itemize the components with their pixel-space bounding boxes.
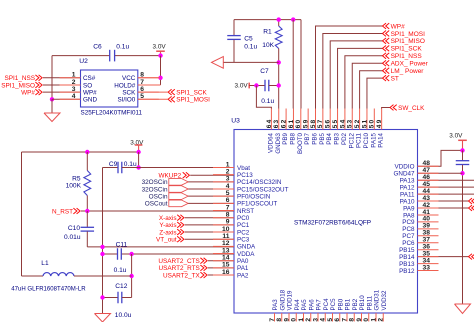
wire WP# from U3 pin58 xyxy=(316,26,383,109)
net chevron pin43 (clipped) xyxy=(469,198,473,204)
port OSCin (pin5) xyxy=(149,193,189,201)
wire U3 pin47 GND47 xyxy=(418,172,463,174)
svg-text:PC2: PC2 xyxy=(237,229,250,236)
svg-text:PB1: PB1 xyxy=(345,298,352,310)
svg-text:45: 45 xyxy=(423,181,431,188)
net label USART2_TX xyxy=(163,272,207,279)
svg-text:5: 5 xyxy=(140,93,144,100)
svg-text:9: 9 xyxy=(226,219,230,226)
U2 left pin names xyxy=(83,75,97,104)
svg-text:3.0V: 3.0V xyxy=(449,133,463,140)
svg-text:56: 56 xyxy=(325,119,332,129)
svg-text:BOOT0: BOOT0 xyxy=(297,132,304,154)
wire 3.0V rail (left) xyxy=(22,151,139,153)
junction 3.0V rail / port xyxy=(136,150,140,154)
svg-text:49: 49 xyxy=(376,119,383,129)
svg-text:15: 15 xyxy=(222,262,230,269)
svg-text:41: 41 xyxy=(423,209,431,216)
svg-text:X-axis: X-axis xyxy=(159,215,177,222)
svg-text:64: 64 xyxy=(266,119,273,129)
wire U2 pin8 VCC xyxy=(138,77,161,79)
svg-text:PC10: PC10 xyxy=(363,132,370,148)
net chevron pin35 (clipped) xyxy=(469,254,473,260)
wire U2 pin3 WP# xyxy=(43,91,81,93)
wire U2 pin5 SI/IO0 xyxy=(138,98,168,100)
svg-text:42: 42 xyxy=(423,202,431,209)
svg-text:58: 58 xyxy=(310,119,317,129)
svg-text:2: 2 xyxy=(72,79,76,86)
svg-text:57: 57 xyxy=(317,119,324,129)
wire U3 pin7 NRST xyxy=(81,210,234,212)
svg-text:25: 25 xyxy=(327,317,334,322)
svg-text:R1: R1 xyxy=(263,28,272,35)
svg-text:43: 43 xyxy=(423,195,431,202)
U3 right pin names xyxy=(394,164,415,275)
svg-text:53: 53 xyxy=(347,119,354,129)
svg-text:PC3: PC3 xyxy=(237,237,250,244)
svg-text:3: 3 xyxy=(72,86,76,93)
net label SPI1_MISO xyxy=(383,38,425,45)
svg-text:47uH GLFR1608T470M-LR: 47uH GLFR1608T470M-LR xyxy=(11,287,86,293)
resistor R1 xyxy=(275,20,282,49)
svg-text:PF1/OSCOUT: PF1/OSCOUT xyxy=(237,201,277,208)
svg-text:PA8: PA8 xyxy=(403,212,415,219)
svg-text:PA6: PA6 xyxy=(308,299,315,311)
svg-text:PC1: PC1 xyxy=(237,222,250,229)
svg-text:PA3: PA3 xyxy=(272,299,279,311)
svg-text:SPI1_MOSI: SPI1_MOSI xyxy=(391,31,426,38)
svg-text:PB12: PB12 xyxy=(399,268,415,275)
junction Vbat wire xyxy=(136,165,140,169)
wire 3.0V jog to U3 pin64 VDD64 xyxy=(256,86,271,109)
svg-text:GNDA: GNDA xyxy=(237,244,256,251)
svg-text:0.1u: 0.1u xyxy=(116,44,129,51)
wire C6 left to GND vertical xyxy=(51,56,53,100)
svg-text:PA12: PA12 xyxy=(400,184,415,191)
wire R1 bottom to U3 pin63 xyxy=(278,49,280,109)
off-sheet arrow (left) xyxy=(212,57,224,69)
U2 left pin stubs xyxy=(60,78,81,100)
svg-text:SPI1_NSS: SPI1_NSS xyxy=(4,75,35,82)
svg-text:17: 17 xyxy=(269,317,276,322)
junction GND47 / cap bottom xyxy=(460,171,464,175)
junction U2 pin8 VCC xyxy=(158,76,162,80)
wire U2 pin2 SO xyxy=(43,84,81,86)
junction R5 top on 3.0V rail xyxy=(85,150,89,154)
junction VDDA / C12 branch xyxy=(129,252,133,256)
svg-text:54: 54 xyxy=(339,119,346,129)
U3 bottom pin stubs xyxy=(275,313,384,322)
svg-text:22: 22 xyxy=(305,317,312,322)
junction R1 top xyxy=(277,17,281,21)
net label VT_out xyxy=(156,236,184,243)
svg-text:PF0/OSCIN: PF0/OSCIN xyxy=(237,193,271,200)
net label X-axis xyxy=(159,215,184,222)
svg-text:62: 62 xyxy=(281,119,288,129)
svg-text:PB2: PB2 xyxy=(352,298,359,310)
net label SPI1_NSS xyxy=(4,75,42,82)
wire top rail (C5/R1/pins 61,60) xyxy=(234,19,301,21)
decoupling capacitor (right) xyxy=(456,150,470,304)
svg-text:35: 35 xyxy=(423,250,431,257)
svg-text:3: 3 xyxy=(226,176,230,183)
U2 right pin names xyxy=(114,75,136,104)
svg-text:33: 33 xyxy=(423,264,431,271)
net label USART2_RTS xyxy=(158,265,207,272)
junction GNDA / GND vertical xyxy=(100,245,104,249)
svg-text:PA13: PA13 xyxy=(400,178,415,185)
svg-text:47: 47 xyxy=(423,167,431,174)
wire 3.0V port down to Vbat wire xyxy=(138,152,140,168)
ground (right) xyxy=(455,304,471,314)
svg-text:14: 14 xyxy=(222,255,230,262)
svg-text:PC12: PC12 xyxy=(348,132,355,148)
svg-text:SO: SO xyxy=(83,82,92,89)
svg-text:26: 26 xyxy=(334,317,341,322)
svg-text:19: 19 xyxy=(283,317,290,322)
wire U3 pin15 xyxy=(208,267,234,269)
U3 left pin stubs xyxy=(213,168,234,276)
svg-text:VCC: VCC xyxy=(122,75,136,82)
wire 3.0V down to U2 pin8/pin7 xyxy=(160,56,162,85)
junction C12 left / GND vertical xyxy=(100,295,104,299)
net label USART2_CTS xyxy=(158,258,207,265)
wire U2 pin4 GND to ground xyxy=(51,99,53,113)
capacitor C11 xyxy=(117,248,119,260)
svg-text:PB0: PB0 xyxy=(337,298,344,310)
wire U3 pin3 xyxy=(188,181,234,183)
ground (U2) xyxy=(44,113,60,122)
wire U3 pin43 PA10 xyxy=(418,200,469,202)
wire U3 pin45 PA12 xyxy=(418,186,474,188)
svg-text:23: 23 xyxy=(312,317,319,322)
svg-text:PB7: PB7 xyxy=(304,132,311,144)
svg-text:C12: C12 xyxy=(115,283,127,290)
svg-text:10: 10 xyxy=(222,226,230,233)
net label SPI1_NSS xyxy=(383,53,423,60)
wire U3 pin35 PB14 xyxy=(418,256,469,258)
svg-text:VT_out: VT_out xyxy=(156,237,177,244)
wire U3 pin46 PA13 xyxy=(418,179,474,181)
capacitor C9 xyxy=(103,162,139,174)
junction R5/C10 on NRST xyxy=(85,209,89,213)
svg-text:48: 48 xyxy=(423,160,431,167)
wire U2 VCC/C6 top rail xyxy=(52,55,161,57)
svg-text:SPI1_SCK: SPI1_SCK xyxy=(391,46,423,53)
svg-text:PB15: PB15 xyxy=(399,247,415,254)
svg-text:16: 16 xyxy=(222,269,230,276)
wire SPI1_MOSI from U3 pin57 xyxy=(323,33,383,108)
wire U3 pin2 PC13 xyxy=(190,174,234,176)
svg-text:PC7: PC7 xyxy=(402,233,415,240)
svg-text:PA2: PA2 xyxy=(237,272,249,279)
net label SPI1_SCK xyxy=(168,89,207,96)
wire U3 pin12 GNDA xyxy=(87,246,234,248)
U2 right pin stubs xyxy=(138,78,159,100)
net label LM_ Power xyxy=(383,68,425,75)
power port 3.0V (U2) xyxy=(153,43,167,55)
svg-text:100K: 100K xyxy=(66,182,82,189)
svg-text:32OSCin: 32OSCin xyxy=(142,186,168,193)
net label SPI1_MOSI xyxy=(383,31,426,38)
svg-text:S25FL204K0TMFI011: S25FL204K0TMFI011 xyxy=(81,109,143,116)
svg-text:2: 2 xyxy=(226,168,230,175)
svg-text:13: 13 xyxy=(222,247,230,254)
wire U3 pin1 Vbat xyxy=(139,167,213,169)
junction C11 left / GND vertical xyxy=(100,252,104,256)
svg-text:52: 52 xyxy=(354,119,361,129)
svg-text:46: 46 xyxy=(423,174,431,181)
svg-text:50: 50 xyxy=(369,119,376,129)
svg-text:40: 40 xyxy=(423,216,431,223)
capacitor C12 xyxy=(103,292,132,304)
net label SW_CLK xyxy=(390,105,425,112)
port OSCout (pin6) xyxy=(145,200,188,208)
svg-text:SPI1_SCK: SPI1_SCK xyxy=(176,90,207,97)
svg-text:PB11: PB11 xyxy=(366,295,373,310)
junction VDDA / L1 xyxy=(129,274,133,278)
svg-text:PC0: PC0 xyxy=(237,215,250,222)
svg-text:4: 4 xyxy=(226,183,230,190)
U3 right pin numbers 48-33 xyxy=(423,160,431,271)
svg-text:VDD64: VDD64 xyxy=(267,132,274,153)
svg-text:LM_ Power: LM_ Power xyxy=(391,68,425,75)
svg-text:32: 32 xyxy=(378,317,385,322)
svg-text:PB6: PB6 xyxy=(312,132,319,144)
svg-text:GND47: GND47 xyxy=(394,171,415,178)
svg-text:L1: L1 xyxy=(41,260,49,267)
capacitor C7 xyxy=(264,80,266,92)
wire U3 pin8 xyxy=(185,217,234,219)
svg-text:OSCout: OSCout xyxy=(145,201,168,208)
svg-text:C6: C6 xyxy=(93,44,102,51)
svg-text:VDD19: VDD19 xyxy=(287,290,294,311)
svg-text:USART2_CTS: USART2_CTS xyxy=(158,258,199,265)
svg-text:0.1u: 0.1u xyxy=(124,161,137,168)
svg-text:PA9: PA9 xyxy=(403,205,415,212)
svg-text:37: 37 xyxy=(423,237,431,244)
junction C5/R1 bottom xyxy=(277,60,281,64)
svg-text:C10: C10 xyxy=(68,225,80,232)
wire C5 bottom to arrow xyxy=(223,61,278,63)
svg-text:C9: C9 xyxy=(109,161,118,168)
svg-text:8: 8 xyxy=(226,211,230,218)
svg-text:Vbat: Vbat xyxy=(237,165,250,172)
power port 3.0V (right) xyxy=(449,133,467,151)
resistor R5 xyxy=(84,152,91,211)
svg-text:U2: U2 xyxy=(79,58,88,65)
wire U3 pin60 to rail corner xyxy=(300,20,302,109)
wire U3 pin13 VDDA with C11 xyxy=(103,253,235,255)
svg-text:WP#: WP# xyxy=(83,89,97,96)
svg-text:GND18: GND18 xyxy=(279,289,286,310)
svg-text:PC4: PC4 xyxy=(323,298,330,311)
junction C7 left / VDD64 tap xyxy=(254,83,258,87)
net label SPI1_SCK xyxy=(383,45,423,52)
svg-text:5: 5 xyxy=(226,190,230,197)
wire U2 pin7 HOLD# xyxy=(138,84,161,86)
svg-text:U3: U3 xyxy=(231,118,240,125)
wire SPI1_NSS from U3 pin54 xyxy=(345,56,383,109)
svg-text:3.0V: 3.0V xyxy=(235,82,249,89)
svg-text:STM32F072RBT6/64LQFP: STM32F072RBT6/64LQFP xyxy=(294,219,371,226)
svg-text:63: 63 xyxy=(273,119,280,129)
svg-text:4: 4 xyxy=(72,93,76,100)
svg-text:HOLD#: HOLD# xyxy=(114,82,135,89)
svg-text:24: 24 xyxy=(320,317,327,322)
svg-text:PD2: PD2 xyxy=(341,132,348,145)
net label ADX_ Power xyxy=(383,60,429,67)
svg-text:GND63: GND63 xyxy=(275,132,282,153)
svg-text:VDD32: VDD32 xyxy=(381,290,388,311)
svg-text:PB13: PB13 xyxy=(399,261,415,268)
svg-text:PB9: PB9 xyxy=(282,132,289,144)
U3 top pin numbers 64-49 xyxy=(266,119,383,129)
svg-text:C11: C11 xyxy=(116,241,128,248)
port 32OSCin (pin3) xyxy=(142,179,189,187)
net label ST xyxy=(383,75,399,82)
svg-text:3.0V: 3.0V xyxy=(153,43,167,50)
svg-text:Z-axis: Z-axis xyxy=(159,229,176,236)
MCU U3 body xyxy=(234,130,418,314)
svg-text:PB5: PB5 xyxy=(319,132,326,144)
svg-text:31: 31 xyxy=(370,317,377,322)
junction C7 right xyxy=(277,83,281,87)
svg-text:PA11: PA11 xyxy=(400,191,415,198)
wire VDDA vertical xyxy=(131,254,133,298)
svg-text:36: 36 xyxy=(423,244,431,251)
wire C7 right to R1 net xyxy=(269,85,279,87)
svg-text:PA5: PA5 xyxy=(301,299,308,311)
U3 bottom pin numbers 17-32 (clipped) xyxy=(269,317,385,322)
svg-text:SPI1_MOSI: SPI1_MOSI xyxy=(176,97,210,104)
net label N_RST xyxy=(52,208,80,215)
svg-text:VDDA: VDDA xyxy=(237,251,255,258)
wire U3 pin61 to rail xyxy=(292,20,294,109)
wire SPI1_MISO from U3 pin56 xyxy=(330,41,382,109)
svg-text:PC11: PC11 xyxy=(356,132,363,148)
wire ADX_ Power from U3 pin53 xyxy=(352,63,382,108)
svg-text:20: 20 xyxy=(291,317,298,322)
wire U3 pin16 xyxy=(208,274,234,276)
svg-text:GND: GND xyxy=(83,97,97,104)
svg-text:12: 12 xyxy=(222,240,230,247)
svg-text:7: 7 xyxy=(226,204,230,211)
svg-text:SPI1_NSS: SPI1_NSS xyxy=(391,53,423,60)
wire U3 pin14 xyxy=(208,260,234,262)
svg-text:60: 60 xyxy=(295,119,302,129)
svg-text:PC15/OSC32OUT: PC15/OSC32OUT xyxy=(237,186,289,193)
svg-text:SPI1_MISO: SPI1_MISO xyxy=(1,82,35,89)
svg-text:ST: ST xyxy=(391,75,399,82)
svg-text:C5: C5 xyxy=(244,35,253,42)
svg-text:PC13: PC13 xyxy=(237,172,253,179)
svg-text:SCK: SCK xyxy=(122,89,136,96)
svg-text:C7: C7 xyxy=(260,68,269,75)
svg-text:21: 21 xyxy=(298,317,305,322)
svg-text:PC6: PC6 xyxy=(402,240,415,247)
junction U2 pin4 GND xyxy=(50,97,54,101)
wire U2 pin1 CS# xyxy=(43,77,81,79)
wire U3 pin10 xyxy=(185,231,234,233)
junction at 3.0V/C6 rail xyxy=(158,53,162,57)
svg-text:PC9: PC9 xyxy=(402,219,415,226)
wire U3 pin9 xyxy=(185,224,234,226)
svg-text:55: 55 xyxy=(332,119,339,129)
svg-text:PA1: PA1 xyxy=(237,265,249,272)
svg-text:6: 6 xyxy=(140,86,144,93)
U2 left pin numbers 1-4 xyxy=(72,72,76,101)
svg-text:SW_CLK: SW_CLK xyxy=(398,105,425,112)
svg-text:PB10: PB10 xyxy=(359,295,366,311)
wire left vertical 3.0V to L1 xyxy=(21,152,23,276)
svg-text:ADX_ Power: ADX_ Power xyxy=(391,61,429,68)
net label Y-axis xyxy=(159,222,183,229)
svg-text:39: 39 xyxy=(423,223,431,230)
svg-text:N_RST: N_RST xyxy=(52,208,73,215)
port 32OSCin (pin4) xyxy=(142,186,189,194)
ground (left) xyxy=(95,314,111,322)
svg-text:SI/IO0: SI/IO0 xyxy=(117,97,135,104)
svg-text:WP#: WP# xyxy=(21,90,35,97)
svg-text:0.1u: 0.1u xyxy=(244,44,257,51)
svg-text:WP#: WP# xyxy=(391,23,405,30)
svg-text:PC14/OSC32IN: PC14/OSC32IN xyxy=(237,179,282,186)
svg-text:PA15: PA15 xyxy=(370,132,377,147)
wire SPI1_SCK from U3 pin55 xyxy=(338,48,383,108)
svg-text:PC5: PC5 xyxy=(330,298,337,311)
U3 top pin names xyxy=(267,132,384,154)
wire C9 left corner down (GND vertical) xyxy=(102,168,104,314)
junction rail/pin61 xyxy=(291,17,295,21)
wire U2 pin6 SCK xyxy=(138,91,168,93)
svg-text:1: 1 xyxy=(226,161,230,168)
capacitor C5 xyxy=(227,20,241,63)
net label WP# xyxy=(383,23,406,30)
U3 left pin names xyxy=(237,165,289,280)
wire SW_CLK from U3 pin49 xyxy=(382,108,390,109)
svg-text:29: 29 xyxy=(356,317,363,322)
svg-text:10.0u: 10.0u xyxy=(115,312,132,319)
wire U3 pin6 xyxy=(188,202,234,204)
svg-text:PB8: PB8 xyxy=(289,132,296,144)
svg-text:11: 11 xyxy=(222,233,229,240)
net label WP# (U2) xyxy=(21,89,42,96)
svg-text:30: 30 xyxy=(363,317,370,322)
svg-text:38: 38 xyxy=(423,230,431,237)
svg-text:PA10: PA10 xyxy=(400,198,415,205)
wire ST from U3 pin51 xyxy=(367,78,383,108)
svg-text:59: 59 xyxy=(303,119,310,129)
svg-text:PA14: PA14 xyxy=(378,132,385,147)
svg-text:PC8: PC8 xyxy=(402,226,415,233)
wire U3 pin42 PA9 xyxy=(418,207,469,209)
svg-text:USART2_TX: USART2_TX xyxy=(163,272,201,279)
svg-text:0.01u: 0.01u xyxy=(64,234,81,241)
wire LM_ Power from U3 pin52 xyxy=(360,71,383,109)
net label SPI1_MISO xyxy=(1,82,42,89)
net label SPI1_MOSI (U2) xyxy=(168,96,210,103)
svg-text:0.1u: 0.1u xyxy=(114,267,127,274)
svg-text:51: 51 xyxy=(361,119,368,129)
svg-text:44: 44 xyxy=(423,188,431,195)
svg-text:0.1u: 0.1u xyxy=(261,98,274,105)
svg-text:Y-axis: Y-axis xyxy=(159,222,176,229)
net chevron pin42 (clipped) xyxy=(469,205,473,211)
svg-text:6: 6 xyxy=(226,197,230,204)
svg-text:SPI1_MISO: SPI1_MISO xyxy=(391,38,425,45)
svg-text:PA4: PA4 xyxy=(294,299,301,311)
